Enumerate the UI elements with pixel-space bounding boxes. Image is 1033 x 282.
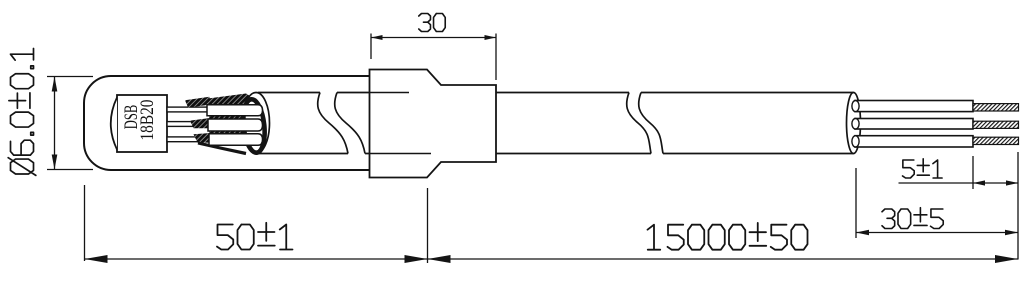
strain-relief boot xyxy=(370,70,497,178)
cable jacket boot to end xyxy=(496,93,854,154)
dim 5±1 line xyxy=(899,182,1019,184)
output wire 1 tinned tip xyxy=(973,104,1019,111)
output wire 2 insulation xyxy=(855,119,973,130)
cable break S-curves mid cable xyxy=(627,93,663,154)
dim text Ø6.0±0.1 xyxy=(8,48,36,175)
stippled band under wires to jacket mouth xyxy=(198,143,246,154)
dim 30±5 line xyxy=(856,232,1018,234)
dim text 30 xyxy=(419,14,445,32)
shrink tube top edge strip xyxy=(208,94,254,105)
sensor lead 3 xyxy=(167,137,212,142)
heat-shrink band over lead 2 joint xyxy=(190,118,212,129)
extension line at wire tips xyxy=(1017,152,1019,260)
output wire 3 tinned tip xyxy=(973,137,1019,144)
cable jacket outline inside probe xyxy=(258,93,370,154)
sensor U1 DS18B20 (TO-92 package) xyxy=(111,95,167,152)
insulated wire 3 at joint xyxy=(209,134,263,146)
dim 30±5 extension line xyxy=(855,168,857,238)
black fill between wire 2 and 3 xyxy=(209,130,258,134)
cable jacket end ellipse xyxy=(847,93,861,154)
dim 30 line xyxy=(371,37,496,39)
dim Ø6.0±0.1 line xyxy=(54,77,56,170)
inner insulation ring xyxy=(241,98,267,153)
dim Ø6.0±0.1 extension lines xyxy=(47,77,93,170)
dim text 15000±50 xyxy=(648,223,808,250)
heat-shrink band over lead 1 joint xyxy=(185,97,210,108)
output wire 1 insulation xyxy=(855,101,973,112)
sensor lead 2 xyxy=(167,122,212,127)
sensor lead 1 xyxy=(167,107,212,112)
dim text 30±5 xyxy=(882,208,943,229)
dim text 5±1 xyxy=(903,159,943,178)
insulated wire 2 at joint xyxy=(208,119,263,131)
cable break S-curves at probe exit xyxy=(318,93,365,154)
dim 5±1 extension line xyxy=(972,156,974,189)
dim 30 extension lines xyxy=(371,34,496,81)
output wire 2 end ellipse xyxy=(852,119,859,130)
dim 50±1 extension lines xyxy=(85,185,428,263)
output wire 1 end ellipse xyxy=(852,101,859,112)
output wire 3 insulation xyxy=(855,136,973,147)
svg-text:18B20: 18B20 xyxy=(138,100,158,141)
dim 50±1 / 15000±50 line xyxy=(85,258,1019,260)
output wire 2 tinned tip xyxy=(973,121,1019,128)
probe tube (stainless sleeve Ø6.0) xyxy=(84,76,370,170)
heat-shrink band over lead 3 joint xyxy=(194,133,215,143)
output wire 3 end ellipse xyxy=(852,136,859,147)
dim text 50±1 xyxy=(217,223,293,250)
jacket lines inside boot xyxy=(370,93,431,154)
insulated wire 1 at joint xyxy=(207,105,263,116)
cable jacket mouth ellipse xyxy=(243,93,270,154)
black fill between wire 1 and 2 xyxy=(209,115,258,119)
